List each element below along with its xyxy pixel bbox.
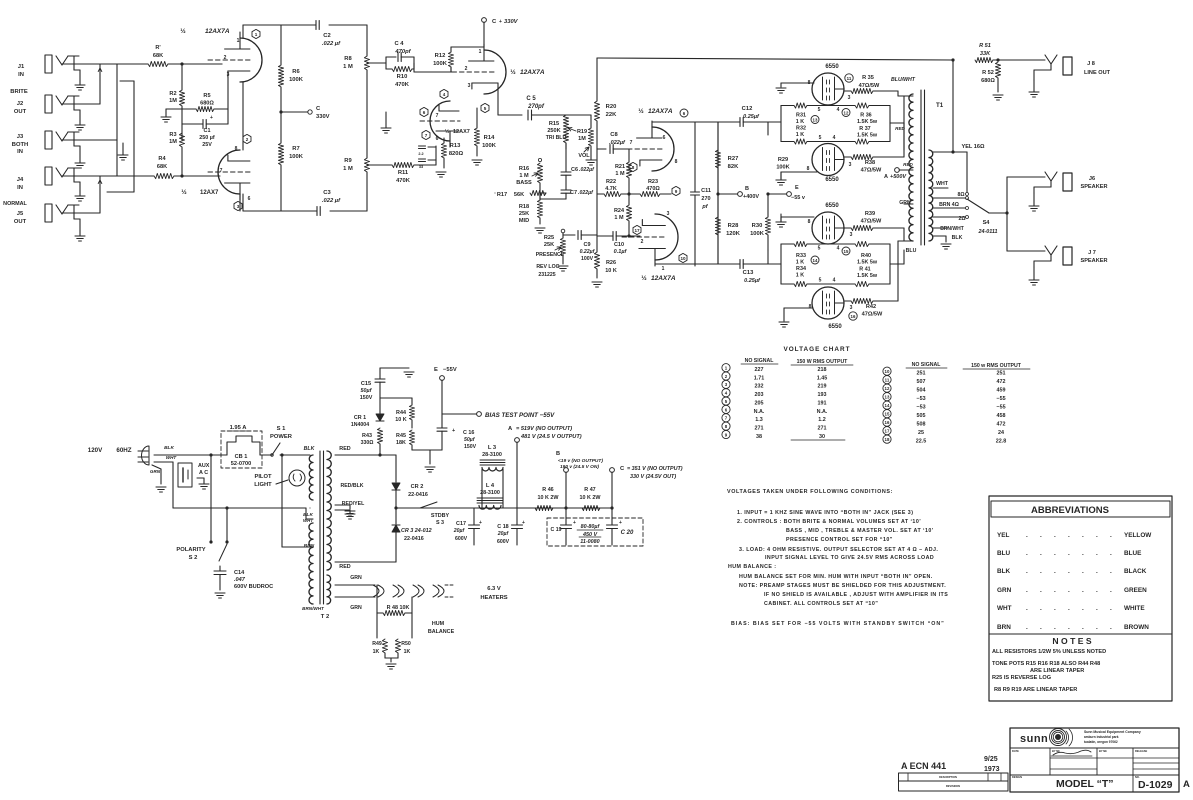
svg-text:C10: C10	[614, 242, 624, 248]
svg-text:R43: R43	[362, 433, 372, 439]
svg-text:100K: 100K	[289, 77, 304, 83]
svg-text:13: 13	[885, 395, 890, 400]
svg-text:B: B	[556, 451, 560, 457]
svg-text:BLUE: BLUE	[1124, 550, 1142, 557]
svg-text:5: 5	[818, 107, 821, 113]
svg-text:47Ω/5W: 47Ω/5W	[859, 83, 880, 89]
svg-text:600V BUDROC: 600V BUDROC	[234, 584, 273, 590]
svg-text:5: 5	[484, 106, 487, 111]
svg-text:8: 8	[675, 159, 678, 165]
svg-text:MID: MID	[519, 218, 529, 224]
svg-text:NOTE: PREAMP STAGES MUST: NOTE: PREAMP STAGES MUST BE SHIELDED FOR…	[739, 583, 946, 589]
svg-text:191: 191	[818, 400, 827, 406]
svg-text:100K: 100K	[482, 143, 497, 149]
svg-text:R13: R13	[450, 143, 461, 149]
svg-text:DATE: DATE	[1012, 749, 1019, 753]
svg-text:1 M: 1 M	[615, 171, 625, 177]
svg-text:12AX7A: 12AX7A	[520, 69, 545, 76]
svg-text:VOLTAGES TAKEN UNDER FOL: VOLTAGES TAKEN UNDER FOLLOWING CONDITION…	[727, 489, 893, 495]
svg-text:+: +	[619, 520, 622, 526]
svg-text:2.2: 2.2	[418, 152, 423, 156]
svg-text:459: 459	[997, 388, 1006, 394]
svg-text:17: 17	[634, 228, 640, 233]
svg-text:6550: 6550	[825, 177, 839, 183]
svg-text:R17: R17	[497, 192, 507, 198]
svg-text:NO SIGNAL: NO SIGNAL	[745, 358, 775, 364]
svg-text:80-80µf: 80-80µf	[581, 524, 601, 530]
svg-text:4: 4	[837, 246, 840, 252]
svg-text:C7: C7	[570, 190, 577, 196]
svg-text:A: A	[884, 174, 888, 180]
svg-text:120V: 120V	[88, 447, 103, 454]
svg-text:3: 3	[849, 162, 852, 168]
svg-text:1: 1	[662, 266, 665, 272]
svg-text:PRESENCE CONTROL SET FOR: PRESENCE CONTROL SET FOR “10”	[786, 537, 893, 543]
svg-text:CR 2: CR 2	[411, 484, 424, 490]
svg-text:12AX7: 12AX7	[453, 129, 470, 135]
svg-text:100K: 100K	[433, 61, 448, 67]
svg-text:.: .	[1068, 587, 1070, 594]
svg-text:22K: 22K	[606, 112, 617, 118]
svg-text:190 v (24.5 V ON): 190 v (24.5 V ON)	[560, 464, 599, 470]
svg-text:1K: 1K	[373, 649, 380, 655]
svg-text:GRN: GRN	[350, 575, 362, 581]
svg-text:R32: R32	[796, 126, 806, 132]
svg-text:R 36: R 36	[860, 113, 871, 119]
svg-text:NO SIGNAL: NO SIGNAL	[912, 362, 942, 368]
svg-text:68K: 68K	[153, 53, 163, 59]
svg-text:.: .	[1026, 624, 1028, 631]
svg-text:205: 205	[755, 400, 764, 406]
svg-text:R50: R50	[401, 641, 411, 647]
svg-text:1.45: 1.45	[817, 375, 828, 381]
svg-text:470pf: 470pf	[394, 49, 411, 55]
svg-text:CR 3 24-012: CR 3 24-012	[401, 528, 432, 534]
svg-text:25K: 25K	[519, 211, 529, 217]
svg-text:1.5K 5w: 1.5K 5w	[857, 133, 878, 139]
svg-text:R38: R38	[865, 160, 875, 166]
svg-text:N.A.: N.A.	[754, 409, 765, 415]
svg-text:5: 5	[819, 135, 822, 141]
svg-text:8: 8	[807, 166, 810, 172]
svg-text:22-0416: 22-0416	[404, 536, 424, 542]
svg-text:+: +	[573, 520, 576, 526]
svg-text:GRN: GRN	[150, 469, 161, 474]
svg-text:WHT: WHT	[303, 518, 313, 523]
svg-text:600V: 600V	[455, 536, 468, 542]
svg-text:270: 270	[701, 196, 710, 202]
svg-text:.: .	[1026, 605, 1028, 612]
svg-text:.: .	[1110, 605, 1112, 612]
svg-text:.: .	[1068, 550, 1070, 557]
svg-text:12AX7A: 12AX7A	[648, 108, 673, 115]
svg-text:12: 12	[885, 386, 890, 391]
svg-text:.: .	[1110, 550, 1112, 557]
svg-text:+: +	[479, 520, 482, 526]
svg-text:C14: C14	[234, 570, 245, 576]
svg-text:MODEL “T”: MODEL “T”	[1056, 778, 1114, 790]
svg-text:CR 1: CR 1	[354, 415, 366, 421]
svg-text:.: .	[1026, 532, 1028, 539]
svg-text:WHT: WHT	[997, 605, 1012, 612]
svg-text:VOL: VOL	[578, 153, 590, 159]
svg-text:N O T E S: N O T E S	[1052, 636, 1091, 646]
svg-text:S 3: S 3	[436, 520, 444, 526]
svg-text:100K: 100K	[750, 231, 765, 237]
svg-text:.047: .047	[234, 577, 246, 583]
svg-text:1 M: 1 M	[614, 215, 624, 221]
svg-text:1 K: 1 K	[796, 273, 804, 279]
svg-text:R 46: R 46	[542, 487, 553, 493]
svg-text:600V: 600V	[497, 539, 510, 545]
svg-text:14: 14	[885, 403, 890, 408]
svg-text:10 K: 10 K	[605, 268, 617, 274]
svg-text:28-3100: 28-3100	[480, 490, 500, 496]
svg-text:J4: J4	[17, 177, 24, 183]
svg-text:WHT: WHT	[936, 181, 949, 187]
svg-text:C8: C8	[610, 132, 618, 138]
svg-text:+: +	[210, 115, 213, 121]
svg-text:2: 2	[224, 55, 227, 61]
svg-text:BOTH: BOTH	[12, 142, 28, 148]
svg-text:10 K 2W: 10 K 2W	[580, 495, 602, 501]
svg-text:R10: R10	[397, 74, 408, 80]
svg-text:tualatin, oregon 97062: tualatin, oregon 97062	[1084, 740, 1118, 744]
svg-text:6550: 6550	[825, 64, 839, 70]
svg-text:R 47: R 47	[584, 487, 595, 493]
svg-text:12AX7A: 12AX7A	[205, 28, 230, 35]
svg-text:NORMAL: NORMAL	[3, 201, 27, 207]
svg-text:−53: −53	[916, 396, 925, 402]
svg-text:RED: RED	[895, 126, 905, 131]
svg-text:SPEAKER: SPEAKER	[1080, 258, 1107, 264]
svg-text:1 K: 1 K	[796, 260, 804, 266]
svg-text:A ECN 441: A ECN 441	[901, 761, 946, 771]
svg-text:472: 472	[997, 379, 1006, 385]
svg-text:.: .	[1054, 624, 1056, 631]
svg-text:BIAS TEST POINT −55V: BIAS TEST POINT −55V	[485, 412, 555, 419]
svg-text:R 48 10K: R 48 10K	[387, 605, 410, 611]
svg-text:R 35: R 35	[862, 75, 874, 81]
svg-text:10 K: 10 K	[395, 417, 406, 423]
svg-text:1.2: 1.2	[818, 417, 826, 423]
svg-text:470K: 470K	[395, 82, 410, 88]
svg-text:1 M: 1 M	[343, 64, 353, 70]
svg-text:C13: C13	[743, 270, 754, 276]
svg-text:OUT: OUT	[14, 219, 27, 225]
svg-text:R12: R12	[435, 53, 446, 59]
svg-text:.: .	[1082, 587, 1084, 594]
svg-text:22.8: 22.8	[996, 439, 1007, 445]
svg-text:R24: R24	[614, 208, 625, 214]
svg-text:18: 18	[885, 437, 890, 442]
svg-text:1: 1	[479, 49, 482, 55]
svg-text:270pf: 270pf	[527, 104, 545, 110]
svg-text:38: 38	[756, 434, 762, 440]
svg-text:R7: R7	[292, 146, 299, 152]
svg-text:BLU: BLU	[997, 550, 1011, 557]
svg-text:.: .	[1054, 550, 1056, 557]
svg-text:.: .	[1026, 550, 1028, 557]
svg-text:4: 4	[833, 135, 836, 141]
svg-text:BALANCE: BALANCE	[428, 629, 455, 635]
svg-text:R18: R18	[519, 204, 529, 210]
svg-text:.022 µf: .022 µf	[322, 41, 341, 47]
svg-text:1: 1	[237, 38, 240, 44]
svg-text:BRN/WHT: BRN/WHT	[940, 226, 964, 232]
svg-text:20µf: 20µf	[497, 531, 510, 537]
svg-text:10: 10	[680, 256, 686, 261]
svg-text:R 37: R 37	[859, 126, 870, 132]
svg-text:507: 507	[917, 379, 926, 385]
svg-text:RED: RED	[903, 162, 913, 167]
svg-text:82K: 82K	[728, 164, 739, 170]
svg-text:120K: 120K	[726, 231, 741, 237]
svg-text:56K: 56K	[514, 192, 524, 198]
svg-text:DESCRIPTION: DESCRIPTION	[939, 775, 957, 779]
svg-text:BLU/WHT: BLU/WHT	[891, 77, 916, 83]
svg-text:8: 8	[235, 146, 238, 152]
svg-text:1M: 1M	[169, 98, 177, 104]
svg-text:504: 504	[917, 388, 926, 394]
svg-text:680Ω: 680Ω	[200, 101, 214, 107]
svg-text:251: 251	[997, 371, 1006, 377]
svg-text:+400V: +400V	[743, 194, 759, 200]
svg-text:R8: R8	[344, 56, 352, 62]
svg-text:GRN: GRN	[997, 587, 1012, 594]
svg-text:IN: IN	[18, 72, 24, 78]
svg-text:CB 1: CB 1	[235, 454, 248, 460]
svg-text:.: .	[1040, 624, 1042, 631]
svg-text:.: .	[1054, 605, 1056, 612]
svg-text:470K: 470K	[396, 178, 411, 184]
svg-text:DESIGN: DESIGN	[1012, 775, 1022, 779]
svg-text:R 52: R 52	[982, 70, 994, 76]
svg-text:68K: 68K	[157, 164, 167, 170]
svg-text:A C: A C	[199, 470, 208, 476]
svg-text:.: .	[1068, 605, 1070, 612]
svg-text:REV LOG: REV LOG	[536, 264, 559, 270]
svg-text:= 519V (NO OUTPUT): = 519V (NO OUTPUT)	[516, 426, 572, 432]
svg-text:3: 3	[227, 72, 230, 78]
svg-text:½: ½	[510, 68, 516, 76]
svg-text:ARE LINEAR TAPER: ARE LINEAR TAPER	[1030, 668, 1084, 674]
svg-text:2: 2	[641, 239, 644, 245]
svg-text:22-0416: 22-0416	[408, 492, 428, 498]
svg-text:BRN: BRN	[997, 624, 1011, 631]
svg-text:BRN: BRN	[304, 543, 315, 549]
svg-text:R 41: R 41	[859, 267, 870, 273]
svg-text:.: .	[1040, 605, 1042, 612]
svg-text:100K: 100K	[776, 165, 789, 171]
svg-text:.: .	[1082, 568, 1084, 575]
svg-text:100K: 100K	[289, 154, 304, 160]
svg-text:25: 25	[918, 430, 924, 436]
svg-text:VOLTAGE CHART: VOLTAGE CHART	[783, 346, 850, 353]
svg-text:amburn industrial park: amburn industrial park	[1084, 735, 1119, 739]
svg-text:GRN: GRN	[899, 200, 911, 206]
svg-text:7: 7	[436, 113, 439, 119]
svg-text:sunn: sunn	[1020, 733, 1048, 745]
svg-text:30: 30	[819, 434, 825, 440]
svg-text:BLK: BLK	[997, 568, 1011, 575]
svg-text:LIGHT: LIGHT	[254, 482, 272, 488]
svg-text:12: 12	[844, 110, 849, 115]
svg-text:227: 227	[755, 367, 764, 373]
svg-text:½: ½	[181, 188, 187, 196]
svg-text:R44: R44	[396, 410, 406, 416]
svg-text:47Ω/5W: 47Ω/5W	[861, 219, 882, 225]
svg-text:RED/YEL: RED/YEL	[342, 501, 365, 507]
svg-text:.: .	[1068, 568, 1070, 575]
svg-text:E: E	[434, 367, 438, 373]
svg-text:RED: RED	[339, 446, 350, 452]
svg-text:9/25: 9/25	[984, 756, 998, 763]
svg-text:8: 8	[632, 165, 635, 170]
svg-text:J5: J5	[17, 211, 24, 217]
svg-text:RELEASE: RELEASE	[1135, 749, 1148, 753]
svg-text:3: 3	[848, 95, 851, 101]
svg-text:1973: 1973	[984, 766, 1000, 773]
svg-text:N.A.: N.A.	[817, 409, 828, 415]
svg-text:25K: 25K	[544, 242, 554, 248]
svg-text:18K: 18K	[396, 440, 406, 446]
svg-text:3: 3	[850, 305, 853, 311]
svg-text:14: 14	[813, 258, 818, 263]
svg-text:R34: R34	[796, 266, 806, 272]
svg-text:R45: R45	[396, 433, 406, 439]
svg-text:.: .	[1096, 587, 1098, 594]
svg-text:T1: T1	[936, 102, 944, 109]
svg-text:GRN: GRN	[350, 605, 362, 611]
svg-text:11: 11	[885, 378, 890, 383]
svg-text:22.5: 22.5	[916, 439, 927, 445]
svg-text:50µf: 50µf	[464, 437, 476, 443]
svg-text:C 18: C 18	[497, 524, 508, 530]
svg-text:25V: 25V	[202, 142, 212, 148]
svg-text:BLK: BLK	[304, 446, 316, 452]
svg-text:24: 24	[998, 430, 1004, 436]
svg-text:R2: R2	[169, 91, 176, 97]
svg-text:203: 203	[755, 392, 764, 398]
svg-text:L 3: L 3	[488, 445, 497, 451]
svg-text:.: .	[1026, 568, 1028, 575]
svg-text:HUM: HUM	[432, 621, 445, 627]
svg-text:3: 3	[237, 204, 240, 209]
svg-text:WHT: WHT	[166, 455, 178, 460]
svg-text:100V: 100V	[581, 256, 594, 262]
svg-text:S 1: S 1	[277, 426, 286, 432]
svg-text:+: +	[499, 19, 502, 25]
svg-text:R30: R30	[752, 223, 763, 229]
svg-text:505: 505	[917, 413, 926, 419]
svg-text:24-0111: 24-0111	[978, 229, 998, 235]
svg-text:.: .	[1026, 587, 1028, 594]
svg-text:8: 8	[808, 219, 811, 225]
svg-text:.: .	[1040, 550, 1042, 557]
svg-text:1M: 1M	[169, 139, 177, 145]
svg-text:−55: −55	[996, 396, 1005, 402]
svg-text:.: .	[1110, 587, 1112, 594]
svg-text:5: 5	[818, 246, 821, 252]
svg-text:RED: RED	[339, 564, 350, 570]
svg-text:= 351 V (NO OUTPUT): = 351 V (NO OUTPUT)	[627, 466, 683, 472]
svg-text:12AX7A: 12AX7A	[651, 275, 676, 282]
svg-text:7: 7	[630, 140, 633, 146]
svg-text:+500V: +500V	[890, 174, 907, 180]
svg-text:.: .	[1082, 624, 1084, 631]
svg-text:6: 6	[423, 110, 426, 115]
svg-text:1.3: 1.3	[755, 417, 763, 423]
svg-text:C3: C3	[323, 190, 331, 196]
svg-text:1.5K 5w: 1.5K 5w	[857, 119, 878, 125]
svg-text:6: 6	[248, 196, 251, 202]
svg-text:R40: R40	[861, 253, 871, 259]
svg-text:R25 IS REVERSE LOG: R25 IS REVERSE LOG	[992, 675, 1051, 681]
svg-text:.: .	[1054, 587, 1056, 594]
svg-text:150 W RMS OUTPUT: 150 W RMS OUTPUT	[797, 359, 849, 365]
svg-text:<19 v (NO OUTPUT): <19 v (NO OUTPUT)	[558, 458, 603, 464]
svg-text:481 V (24.5 V OUTPUT): 481 V (24.5 V OUTPUT)	[520, 434, 582, 440]
svg-text:6: 6	[663, 135, 666, 141]
svg-text:IN: IN	[17, 149, 23, 155]
svg-text:R5: R5	[203, 93, 210, 99]
svg-text:47Ω/5W: 47Ω/5W	[861, 168, 882, 174]
svg-text:1M: 1M	[578, 136, 586, 142]
svg-text:HUM BALANCE :: HUM BALANCE :	[728, 564, 777, 570]
svg-text:193: 193	[818, 392, 827, 398]
svg-text:YEL: YEL	[997, 532, 1010, 539]
svg-text:R23: R23	[648, 179, 658, 185]
svg-text:R39: R39	[865, 211, 875, 217]
svg-text:HEATERS: HEATERS	[480, 595, 507, 601]
svg-text:½: ½	[180, 27, 186, 35]
svg-text:150V: 150V	[464, 444, 477, 450]
svg-text:5: 5	[819, 278, 822, 284]
svg-text:28-3100: 28-3100	[482, 452, 502, 458]
svg-text:250 µf: 250 µf	[199, 135, 215, 141]
svg-text:3: 3	[667, 211, 670, 217]
svg-text:C12: C12	[742, 106, 753, 112]
svg-text:.022µf: .022µf	[579, 167, 595, 173]
svg-text:820Ω: 820Ω	[449, 151, 464, 157]
svg-text:J 7: J 7	[1088, 250, 1096, 256]
svg-text:SPEAKER: SPEAKER	[1080, 184, 1107, 190]
svg-text:2Ω: 2Ω	[958, 216, 965, 222]
svg-text:17: 17	[885, 429, 890, 434]
svg-text:−55 v: −55 v	[791, 195, 806, 201]
svg-text:R16: R16	[519, 166, 529, 172]
svg-text:BROWN: BROWN	[1124, 624, 1149, 631]
svg-text:L 4: L 4	[486, 483, 495, 489]
svg-text:7: 7	[425, 133, 428, 138]
svg-text:R33: R33	[796, 253, 806, 259]
svg-text:7: 7	[220, 168, 223, 174]
svg-text:BLK: BLK	[164, 445, 174, 451]
svg-text:680Ω: 680Ω	[981, 78, 995, 84]
svg-text:R28: R28	[728, 223, 739, 229]
svg-text:60HZ: 60HZ	[116, 447, 131, 454]
svg-text:20µf: 20µf	[453, 528, 466, 534]
svg-text:PILOT: PILOT	[254, 474, 272, 480]
svg-text:BIAS: BIAS SET FOR: BIAS: BIAS SET FOR −55 VOLTS WITH STANDB…	[731, 621, 945, 627]
svg-text:OUT: OUT	[14, 109, 27, 115]
svg-text:S 2: S 2	[189, 555, 198, 561]
svg-text:4: 4	[833, 278, 836, 284]
svg-text:1 M: 1 M	[519, 173, 529, 179]
svg-text:POLARITY: POLARITY	[176, 547, 205, 553]
svg-text:4: 4	[837, 107, 840, 113]
